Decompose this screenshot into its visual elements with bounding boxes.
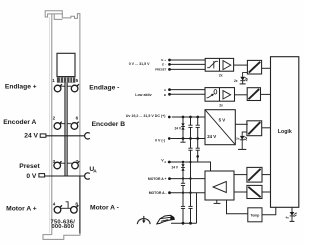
LED D3 (4x status from Logik) <box>285 207 296 221</box>
svg-text:2x: 2x <box>219 104 223 108</box>
svg-text:MOTOR A +: MOTOR A + <box>148 177 167 181</box>
svg-text:Encoder A: Encoder A <box>3 119 36 126</box>
wire MOTOR A - <box>170 192 206 194</box>
terminal 6 (Encoder B) <box>71 122 79 130</box>
junction common / bus x190 <box>189 222 192 225</box>
wire X1 to Logik <box>262 67 271 69</box>
terminal 5 (Endlage -) <box>71 84 79 92</box>
junction VA / bus x190 <box>189 161 191 163</box>
svg-text:Endlage +: Endlage + <box>5 84 37 91</box>
wire Encoder B input <box>169 93 205 95</box>
LED D1 (2x status) <box>234 73 248 84</box>
wire 0 V return rail <box>171 138 205 140</box>
svg-text:000-800: 000-800 <box>51 224 74 230</box>
capacitor C2 <box>196 125 200 127</box>
svg-text:2x: 2x <box>219 73 223 77</box>
wire U1 to X1 <box>234 64 248 66</box>
terminal 3 (Preset) <box>54 161 62 169</box>
svg-text:2x: 2x <box>236 137 240 141</box>
junction Motor A+ / D6 <box>182 177 184 179</box>
wire VA rail to motor driver <box>168 162 211 171</box>
wire Endlage- input <box>169 63 205 65</box>
svg-text:2x: 2x <box>234 79 238 83</box>
capacitor C3 between motor wires <box>182 179 184 224</box>
wire 24 V supply through module <box>46 135 85 137</box>
junction Motor A- / C3 <box>182 192 184 194</box>
label UA <box>89 166 97 175</box>
junction VA / D6 <box>182 161 184 163</box>
wire 24 V supply rail <box>172 116 205 118</box>
svg-text:Temp: Temp <box>251 214 260 218</box>
svg-text:24 V: 24 V <box>24 133 38 140</box>
isolation barrier X2 <box>247 88 260 101</box>
svg-text:A: A <box>164 160 166 164</box>
svg-text:Logik: Logik <box>278 129 292 135</box>
wire along module right edge from UA node to bottom <box>79 176 81 234</box>
svg-text:5 V: 5 V <box>219 117 226 122</box>
junction dots on supply rails <box>168 116 199 140</box>
socket arc 24 V node <box>85 133 90 139</box>
internal link wires terminals 4-8 <box>61 202 71 209</box>
ground bar under D3 <box>290 220 295 222</box>
svg-text:0 V ... 31,5 V: 0 V ... 31,5 V <box>129 62 150 66</box>
wire U4 to Temp sensor <box>227 200 248 214</box>
input stage U2 (encoder inputs) <box>205 88 235 102</box>
terminal 4 (Motor A +) <box>54 205 62 213</box>
module housing outer left contour line <box>49 17 51 233</box>
wire X3 to Logik <box>262 127 271 129</box>
manual-operation hand icon <box>157 215 175 224</box>
ground bar under D2 <box>238 148 246 150</box>
node VA <box>168 161 171 164</box>
logic block Logik <box>271 57 299 208</box>
junction Motor A+ / bus x190 <box>189 177 191 179</box>
motor driver U4 <box>205 171 234 200</box>
socket arc UA node <box>85 173 90 179</box>
svg-text:24 V: 24 V <box>174 127 181 131</box>
svg-text:PRESET: PRESET <box>155 68 166 72</box>
svg-text:Motor A -: Motor A - <box>90 204 119 211</box>
wire Endlage+ input <box>169 59 205 61</box>
connector bars lower x183 <box>181 206 185 208</box>
terminal lug 24 V <box>40 134 46 137</box>
svg-text:A: A <box>93 168 97 174</box>
wire X4 to Logik <box>262 174 271 176</box>
part number label 750-636/000-800 <box>51 219 76 230</box>
node PRESET <box>168 68 171 71</box>
wire pair from plug down to UA node <box>65 83 67 176</box>
node E- <box>168 63 171 66</box>
wire Logik to Temp sensor <box>262 207 276 215</box>
input stage U1 (limit switch inputs) <box>205 58 233 71</box>
suppressor diode D6 24 V <box>171 162 185 179</box>
node MOTOR A - <box>168 191 171 194</box>
terminal 1 (Endlage +) <box>54 84 62 92</box>
svg-text:MOTOR A -: MOTOR A - <box>149 191 167 195</box>
suppressor diode D5 24 V across rails <box>174 117 185 139</box>
wire Motor A- to common <box>196 193 198 224</box>
terminal 2 (Encoder A) <box>54 122 62 130</box>
connector bars on bus x197 <box>196 148 200 150</box>
terminal 7 (UA) <box>72 161 80 169</box>
wire MOTOR A + <box>170 178 206 180</box>
svg-text:24 V: 24 V <box>171 166 178 170</box>
node A <box>168 88 171 91</box>
svg-text:Endlage -: Endlage - <box>89 84 119 91</box>
bus connector plug body <box>57 53 75 76</box>
temperature sensor Temp <box>248 208 262 222</box>
wire common bottom net <box>171 222 197 224</box>
junction Motor A- / bus x190 <box>189 192 191 194</box>
connector bars lower x190 <box>188 206 192 208</box>
svg-text:E -: E - <box>162 63 166 67</box>
insertion-point icon (arc with arrow) <box>137 216 150 224</box>
svg-text:0 V (-): 0 V (-) <box>155 138 166 142</box>
isolation barrier X1 <box>247 60 261 74</box>
wire Preset input <box>169 68 205 70</box>
svg-text:Preset: Preset <box>19 163 40 170</box>
wire Encoder A input <box>169 89 205 91</box>
isolation barrier X3 <box>247 121 262 136</box>
terminal 8 (Motor A -) <box>71 205 79 213</box>
terminal stub wires rows 1-3 <box>60 86 72 163</box>
wire U4 to X4 <box>234 174 247 176</box>
I/O module housing top profile with mounting hook <box>43 11 80 240</box>
wire X5 to Logik <box>262 191 271 193</box>
svg-text:0 V: 0 V <box>26 173 37 180</box>
capacitor C1 <box>188 125 192 127</box>
ground bar under D1 <box>240 83 246 85</box>
svg-text:Uv 19,2 ... 31,5 V DC (+): Uv 19,2 ... 31,5 V DC (+) <box>126 114 166 118</box>
bus connector pin block (hatched) <box>57 77 75 82</box>
DC/DC converter U3 <box>205 110 235 145</box>
svg-text:4x: 4x <box>285 215 289 219</box>
svg-text:E +: E + <box>161 58 166 62</box>
label VA <box>161 158 166 163</box>
svg-text:24 V: 24 V <box>207 134 216 139</box>
svg-text:Low aktiv: Low aktiv <box>135 93 151 97</box>
wire U3 to X3 <box>235 123 248 125</box>
terminal lug 0 V <box>39 174 45 177</box>
node B <box>168 93 171 96</box>
wire U4 to X5 <box>234 191 247 193</box>
wire U2 to X2 <box>235 94 248 96</box>
isolation barrier X4 <box>247 167 262 182</box>
LED D2 (2x power) <box>236 132 247 149</box>
isolation barrier X5 <box>247 185 262 198</box>
svg-text:Encoder B: Encoder B <box>92 121 126 128</box>
wire vertical bus at x197 <box>197 117 199 162</box>
node E+ <box>168 59 171 62</box>
wire X2 to Logik <box>261 93 271 95</box>
connector bars on bus x190 <box>188 148 192 150</box>
wire 0 V / UA through module <box>45 175 85 177</box>
svg-text:Motor A +: Motor A + <box>6 205 37 212</box>
ground under U4 <box>214 200 221 203</box>
node MOTOR A + <box>168 177 171 180</box>
wire vertical bus at x190 <box>190 117 192 223</box>
junction on bus x197 <box>196 155 199 158</box>
junction common / C3 branch <box>182 222 185 225</box>
ground stub below suppressor D5 <box>180 139 185 143</box>
